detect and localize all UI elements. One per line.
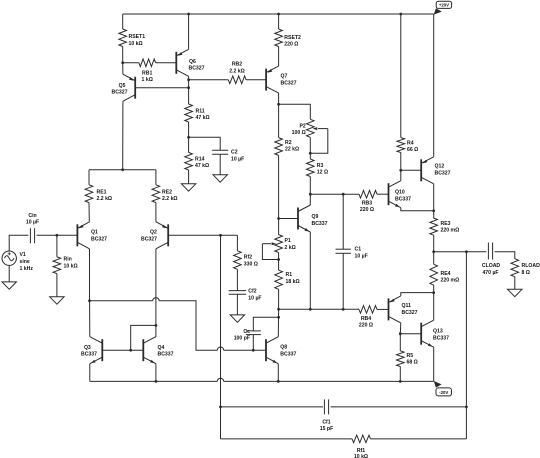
svg-text:220 mΩ: 220 mΩ [441,228,460,234]
svg-text:Cin: Cin [28,213,36,219]
wire mirror out to Q8 base [90,300,153,302]
resistor R3 [309,137,311,159]
hop over Q2 collector [153,298,159,301]
wire output to CLOAD [434,251,487,253]
svg-text:10 kΩ: 10 kΩ [129,41,143,47]
svg-text:68 Ω: 68 Ω [407,360,418,366]
wire Q5 collector down to mirror rail [122,101,124,170]
wire RB4 to Q11 base [377,308,389,310]
svg-text:BC337: BC337 [312,221,328,227]
svg-text:66 Ω: 66 Ω [407,147,418,153]
wire Q13 emitter down [433,347,435,381]
transistor Q7 (PNP BC327) [265,69,267,91]
node G dots (Q8 coll/Q9 em/C1 bottom) [277,308,280,311]
-20V supply flag [434,381,442,388]
wire feedback tap to Rf1 [465,407,467,439]
wire node O to Q13 base [400,333,421,335]
wire Q13 collector up [433,293,435,321]
svg-text:R14: R14 [195,156,205,162]
wire feedback tap down [465,252,467,407]
svg-text:C1: C1 [355,246,362,252]
svg-text:Q3: Q3 [84,345,91,351]
svg-text:R4: R4 [407,140,414,146]
svg-text:1 kHz: 1 kHz [20,266,34,272]
svg-text:BC337: BC337 [433,335,449,341]
svg-text:2.2 kΩ: 2.2 kΩ [162,196,178,202]
svg-text:Q9: Q9 [312,214,319,220]
node tail (Q5 collector) [121,168,124,171]
node OUT [432,250,435,253]
svg-text:8 Ω: 8 Ω [522,270,530,276]
svg-text:100 pF: 100 pF [234,336,250,342]
svg-text:C2: C2 [231,149,238,155]
svg-text:12 Ω: 12 Ω [317,170,328,176]
svg-text:+20V: +20V [439,3,449,8]
svg-text:BC337: BC337 [395,196,411,202]
svg-text:Q5: Q5 [119,83,126,89]
svg-text:BC337: BC337 [158,352,174,358]
resistor R5 [399,334,401,351]
wire Q9 emitter down [309,232,311,309]
svg-text:RB3: RB3 [362,200,372,206]
ground under Cf2 [230,315,244,322]
wire node D to P2 [279,104,311,119]
svg-text:R11: R11 [196,108,205,114]
resistor RE2 [155,170,157,185]
transistor Q2 (PNP BC327) [167,224,169,246]
resistor R1 [278,253,280,271]
capacitor Cc [253,317,278,331]
wire Q6 collector down [188,76,190,87]
ground under V1 [2,282,16,289]
wire Q1 collector down [89,249,91,301]
wire Q6 emitter to rail [188,14,190,49]
capacitor C1 [342,194,344,249]
wire Q12 collector down [433,184,435,211]
svg-text:R5: R5 [407,353,414,359]
node feedback tap [465,250,468,253]
resistor R11 [188,88,190,104]
ground under RLOAD [508,289,522,296]
resistor RE4 [433,252,435,264]
node K (Q4 collector tie) [155,324,158,327]
svg-text:RE4: RE4 [441,271,451,277]
node A (RSET1/Q5 emitter/RB1) [121,61,124,64]
svg-text:RB4: RB4 [361,316,371,322]
svg-text:15 pF: 15 pF [320,426,333,432]
node Cc top [277,316,280,319]
hop over feedback line (base wire) [217,347,223,350]
resistor RE3 [433,211,435,218]
ground under C2 [213,175,227,182]
transistor Q12 (PNP BC327) [420,159,422,181]
svg-text:Rf2: Rf2 [244,255,252,261]
wire Q10 collector [400,170,402,180]
resistor RB3 [359,190,377,198]
wire Q11 collector [399,323,402,334]
svg-text:10 µF: 10 µF [355,253,368,259]
source V1 (sine 1 kHz) [2,251,16,265]
svg-text:RSET1: RSET1 [129,34,146,40]
svg-text:22 kΩ: 22 kΩ [285,147,299,153]
capacitor CLOAD [487,243,489,260]
transistor Q8 (NPN BC337) [265,339,267,361]
node M (drivers/RE3) [432,209,435,212]
potentiometer P2 [307,119,315,137]
svg-text:10 kΩ: 10 kΩ [354,454,368,458]
svg-text:R1: R1 [286,272,293,278]
transistor Q4 (NPN BC337) [142,339,144,361]
svg-text:BC327: BC327 [402,310,418,316]
svg-text:-20V: -20V [439,390,448,395]
transistor Q3 (NPN BC337) [101,339,103,361]
wire V1 to ground [8,265,10,282]
node H (feedback / Q2 base) [219,234,222,237]
svg-text:2 kΩ: 2 kΩ [285,245,296,251]
svg-text:Q13: Q13 [433,328,443,334]
node J (mirror bases) [129,349,132,352]
wire Q9 collector [309,194,311,205]
node rail dots [155,380,158,383]
node P1 bottom [277,258,280,261]
wire +20V top supply rail [123,13,434,15]
svg-text:BC327: BC327 [281,80,297,86]
svg-text:P1: P1 [285,238,291,244]
node C (R11/R14/C2) [187,136,190,139]
wire Q5 emitter [122,63,124,74]
svg-text:P2: P2 [300,123,306,129]
resistor RB1 [123,62,139,64]
wire node E to RB3 [310,193,359,195]
capacitor Cin [9,235,28,251]
svg-text:100 Ω: 100 Ω [292,130,306,136]
svg-text:BC327: BC327 [189,66,205,72]
svg-text:Q6: Q6 [189,59,196,65]
node Cf1 left [219,406,222,409]
svg-text:BC337: BC337 [81,352,97,358]
svg-text:10 kΩ: 10 kΩ [64,263,78,269]
capacitor C2 [189,137,221,150]
node Cc bottom [252,349,255,352]
transistor Q1 (PNP BC327) [76,224,78,246]
node input (Cin/Rin/Q1 base) [56,234,59,237]
svg-text:RE2: RE2 [162,189,172,195]
resistor R14 [188,137,190,152]
resistor RB4 [359,306,377,314]
svg-text:BC327: BC327 [91,236,107,242]
svg-text:47 kΩ: 47 kΩ [195,163,209,169]
svg-text:10 µF: 10 µF [231,156,244,162]
wire mirror diode bracket [131,325,156,350]
wire Q2 base to feedback node [168,234,238,236]
wire Q10 emitter [401,208,434,211]
transistor Q9 (NPN BC337) [297,208,299,230]
svg-text:18 kΩ: 18 kΩ [286,279,300,285]
svg-text:Rin: Rin [64,256,72,262]
resistor R2 [278,104,280,137]
wire -20V rail [90,380,218,382]
wire Q8 emitter down [277,364,279,382]
svg-text:220 Ω: 220 Ω [359,323,373,329]
svg-text:sine: sine [20,259,30,265]
wire VAS output row [279,308,359,310]
wire feedback node down [220,235,222,407]
resistor RB2 [189,79,229,81]
transistor Q6 (PNP BC327) [175,52,177,74]
svg-text:Q1: Q1 [91,229,98,235]
transistor Q10 (NPN BC337) [388,183,390,205]
node F (R2/Q9 base/P1) [277,217,280,220]
svg-text:BC327: BC327 [435,170,451,176]
+20V supply flag [434,8,442,14]
svg-text:Cf2: Cf2 [248,288,256,294]
node O (Q11 coll/Q13 base/R5) [399,332,402,335]
svg-text:Q8: Q8 [280,344,287,350]
resistor Rf1 [221,438,353,440]
svg-text:Q7: Q7 [281,73,288,79]
svg-text:2.2 kΩ: 2.2 kΩ [229,68,245,74]
svg-text:220 mΩ: 220 mΩ [441,278,460,284]
svg-text:BC327: BC327 [141,236,157,242]
node L (R4/Q10 coll/Q12 base) [399,169,402,172]
svg-text:Q12: Q12 [435,163,445,169]
svg-text:RB2: RB2 [232,62,242,68]
wire Q7 collector [278,93,280,104]
wire Q12 emitter to rail [433,14,435,157]
wire Q4 emitter down [155,364,157,382]
resistor RE1 [88,170,90,185]
transistor Q13 (NPN BC337) [420,323,422,345]
svg-text:Q2: Q2 [150,229,157,235]
ground under Rin [50,297,64,304]
svg-text:330 Ω: 330 Ω [244,261,258,267]
resistor RLOAD [511,259,519,277]
svg-text:Q4: Q4 [158,345,165,351]
wire Q5 base [135,87,188,89]
node D (Q7 collector/R2/P2 branch) [277,103,280,106]
svg-text:RLOAD: RLOAD [522,263,540,269]
resistor Rf2 [236,235,238,251]
ground under R14 [181,184,195,191]
resistor RSET2 [278,14,280,29]
svg-text:220 Ω: 220 Ω [284,41,298,47]
svg-text:RE1: RE1 [97,189,107,195]
svg-text:1 kΩ: 1 kΩ [142,77,153,83]
transistor Q5 (PNP BC327) [134,77,136,99]
wire Q3 collector up [89,301,91,337]
svg-text:2.2 kΩ: 2.2 kΩ [97,196,113,202]
node P2 bottom [309,152,312,155]
capacitor Cf1 [221,406,324,408]
resistor Rin [56,235,58,257]
wire feedback to Rf1 [220,407,222,439]
svg-text:220 Ω: 220 Ω [360,207,374,213]
transistor Q11 (PNP BC327) [388,298,390,320]
wire Q9 base [279,218,299,220]
node B (Q6 collector/RB2/R11 top) [187,78,190,81]
node I (Q1/Q3 collectors) [88,299,91,302]
svg-text:Q11: Q11 [402,303,412,309]
svg-text:CLOAD: CLOAD [482,263,501,269]
svg-text:RE3: RE3 [441,221,451,227]
wire Q11 emitter [401,293,434,296]
svg-text:Cc: Cc [243,329,250,335]
node top rail junction dots [187,13,190,16]
node N (RE4/Q11 em/Q13 coll) [432,291,435,294]
wire node L to Q12 base [401,169,421,171]
svg-text:R2: R2 [285,140,292,146]
svg-text:470 µF: 470 µF [482,270,498,276]
svg-text:10 µF: 10 µF [248,295,261,301]
wire Q3 emitter down [89,364,91,382]
resistor R4 [400,14,402,138]
svg-text:47 kΩ: 47 kΩ [196,115,210,121]
capacitor Cf2 [229,290,246,292]
svg-text:10 µF: 10 µF [26,220,39,226]
wire tail rail [89,169,156,171]
node C1 top [342,193,345,196]
svg-text:R3: R3 [317,163,324,169]
svg-text:V1: V1 [20,252,26,258]
wire Q3 base to Q4 base [102,349,142,351]
svg-text:BC327: BC327 [111,90,127,96]
wire Q2 collector down [155,249,157,337]
hop rail over feedback line [217,378,223,381]
wire RB3 to Q10 base [377,193,389,195]
wire Q8 collector up [277,309,279,336]
resistor RSET1 [122,14,124,29]
svg-text:Q10: Q10 [395,189,405,195]
svg-text:RSET2: RSET2 [284,35,301,41]
svg-text:BC337: BC337 [280,351,296,357]
svg-text:RB1: RB1 [142,70,152,76]
potentiometer P1 [278,219,280,235]
node Cf1 right [465,406,468,409]
wire input to Q1 base [57,234,78,236]
node E (R3/Q9 collector/RB3) [309,193,312,196]
svg-text:Cf1: Cf1 [322,419,330,425]
